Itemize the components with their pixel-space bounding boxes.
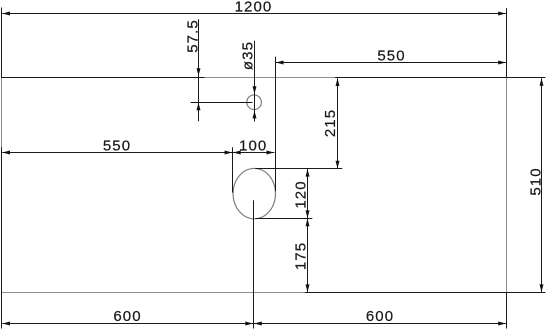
svg-text:550: 550 [103,137,131,154]
svg-text:510: 510 [528,167,545,195]
svg-text:600: 600 [366,308,394,325]
svg-text:1200: 1200 [235,0,273,15]
svg-text:550: 550 [377,48,405,65]
svg-text:600: 600 [113,308,141,325]
svg-text:100: 100 [239,137,267,154]
svg-text:215: 215 [322,109,339,137]
svg-text:175: 175 [293,242,310,270]
svg-text:ø35: ø35 [240,41,257,70]
svg-text:120: 120 [292,180,309,208]
svg-text:57.5: 57.5 [184,19,201,53]
